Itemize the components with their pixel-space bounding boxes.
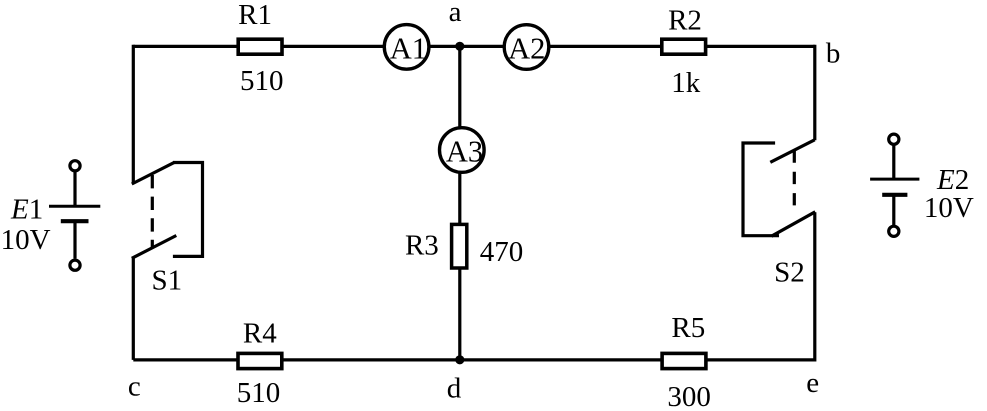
switch S1 bottom blade <box>132 236 177 259</box>
svg-text:d: d <box>447 372 462 404</box>
wire left upper <box>132 45 135 183</box>
svg-text:10V: 10V <box>1 224 51 256</box>
battery E2 negative plate <box>882 193 907 197</box>
battery E1 negative plate <box>61 219 89 223</box>
resistor R3 <box>405 224 467 268</box>
svg-text:E1: E1 <box>10 194 43 226</box>
wire bottom (c-d-e rail) <box>133 358 815 361</box>
wire top (node a rail) <box>133 45 815 48</box>
battery E1 positive plate <box>49 205 100 208</box>
svg-text:470: 470 <box>480 236 524 268</box>
svg-text:A1: A1 <box>390 32 427 66</box>
switch S1 top blade <box>132 162 175 184</box>
svg-text:510: 510 <box>240 65 284 97</box>
svg-text:R3: R3 <box>405 230 439 262</box>
svg-text:R2: R2 <box>668 5 702 37</box>
ammeter A3 <box>440 128 485 173</box>
svg-text:b: b <box>826 37 841 69</box>
switch S2 bottom blade <box>772 212 816 236</box>
battery E1 top terminal <box>70 161 80 171</box>
wire right upper <box>813 45 816 140</box>
svg-text:10V: 10V <box>924 192 974 224</box>
battery E2 top terminal <box>889 134 899 144</box>
battery E1 top lead <box>73 172 76 205</box>
switch S1 bypass wire (C shape) <box>173 163 203 257</box>
battery E2 bottom terminal <box>889 226 899 236</box>
resistor R1 <box>238 0 282 54</box>
node d <box>447 355 465 404</box>
battery E2 positive plate <box>870 178 919 181</box>
battery E2 top lead <box>892 145 895 178</box>
battery E2 bottom lead <box>892 197 895 227</box>
svg-text:510: 510 <box>237 377 281 409</box>
battery E1 bottom lead <box>73 223 76 259</box>
svg-text:S2: S2 <box>774 257 805 289</box>
switch S1 gang link (dashed) <box>151 175 154 248</box>
resistor R2 <box>662 5 706 55</box>
resistor R5 <box>662 312 706 369</box>
svg-text:A3: A3 <box>446 135 483 169</box>
ammeter A1 <box>384 25 429 70</box>
svg-text:300: 300 <box>667 381 711 411</box>
switch S2 gang link (dashed) <box>793 151 796 214</box>
svg-text:e: e <box>806 367 819 399</box>
svg-text:R4: R4 <box>243 318 277 350</box>
wire left lower <box>132 258 135 360</box>
svg-text:R5: R5 <box>671 312 705 344</box>
svg-text:1k: 1k <box>671 67 701 99</box>
ammeter A2 <box>504 25 549 70</box>
svg-text:A2: A2 <box>508 31 545 65</box>
node a <box>449 0 465 51</box>
switch S2 bypass wire (C shape) <box>743 143 779 236</box>
svg-text:a: a <box>449 0 462 28</box>
svg-text:c: c <box>128 371 141 403</box>
svg-text:R1: R1 <box>238 0 272 31</box>
svg-text:S1: S1 <box>151 265 182 297</box>
battery E1 bottom terminal <box>70 260 80 270</box>
wire right lower <box>813 212 816 361</box>
wire middle branch (a to d) <box>458 46 461 360</box>
resistor R4 <box>238 318 282 369</box>
switch S2 top blade <box>770 140 814 163</box>
